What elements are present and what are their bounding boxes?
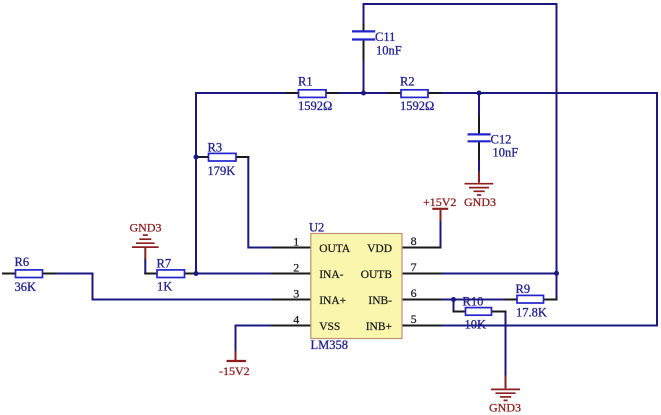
svg-text:8: 8 — [411, 234, 417, 248]
svg-text:R7: R7 — [157, 257, 172, 271]
svg-text:3: 3 — [293, 286, 299, 300]
svg-text:6: 6 — [411, 286, 417, 300]
svg-text:LM358: LM358 — [311, 338, 349, 352]
svg-text:2: 2 — [293, 260, 299, 274]
svg-text:VSS: VSS — [319, 321, 340, 333]
svg-text:R6: R6 — [15, 255, 30, 269]
svg-text:R1: R1 — [298, 75, 313, 89]
svg-text:GND3: GND3 — [489, 401, 521, 415]
svg-text:R9: R9 — [516, 282, 531, 296]
svg-text:C12: C12 — [491, 133, 512, 147]
svg-text:-15V2: -15V2 — [219, 364, 250, 378]
svg-text:U2: U2 — [309, 221, 324, 235]
svg-text:R3: R3 — [208, 141, 223, 155]
svg-text:OUTA: OUTA — [319, 243, 351, 255]
svg-text:C11: C11 — [375, 30, 395, 44]
svg-text:179K: 179K — [208, 164, 236, 178]
svg-text:10nF: 10nF — [493, 146, 519, 160]
svg-text:R10: R10 — [463, 295, 484, 309]
svg-text:5: 5 — [411, 312, 417, 326]
svg-text:4: 4 — [293, 312, 299, 326]
svg-text:INA-: INA- — [319, 269, 343, 281]
svg-text:1592Ω: 1592Ω — [298, 99, 332, 113]
svg-text:+15V2: +15V2 — [423, 195, 456, 209]
svg-text:17.8K: 17.8K — [516, 306, 547, 320]
svg-text:1592Ω: 1592Ω — [400, 99, 434, 113]
svg-text:GND3: GND3 — [464, 195, 496, 209]
svg-text:INB+: INB+ — [366, 321, 392, 333]
svg-text:1K: 1K — [157, 280, 172, 294]
svg-text:INA+: INA+ — [319, 295, 346, 307]
svg-text:10K: 10K — [465, 318, 487, 332]
svg-text:10nF: 10nF — [376, 44, 402, 58]
svg-text:GND3: GND3 — [130, 221, 162, 235]
svg-text:36K: 36K — [15, 280, 37, 294]
svg-text:R2: R2 — [400, 75, 415, 89]
svg-text:OUTB: OUTB — [361, 269, 393, 281]
svg-text:1: 1 — [293, 235, 299, 249]
svg-text:VDD: VDD — [367, 243, 392, 255]
svg-text:7: 7 — [411, 260, 417, 274]
svg-text:INB-: INB- — [368, 295, 392, 307]
